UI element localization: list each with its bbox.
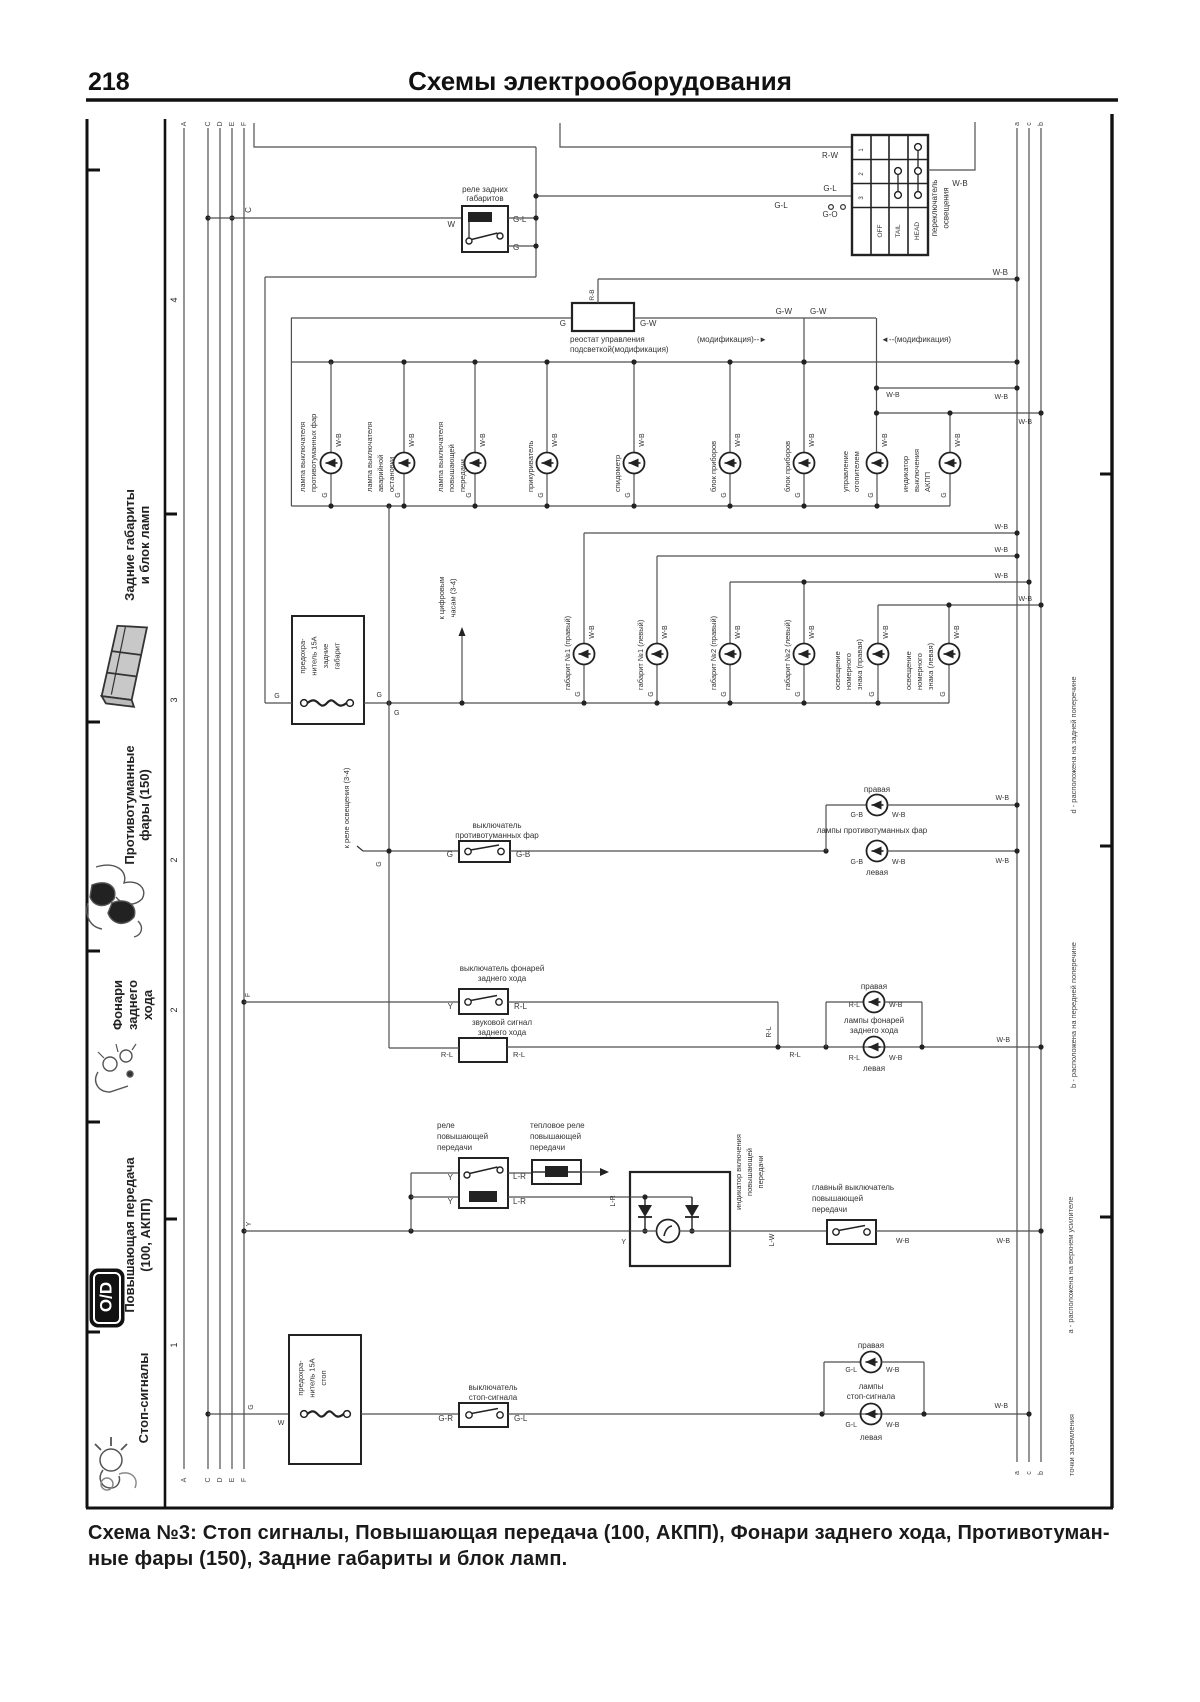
svg-text:E: E [229,1477,236,1482]
wire x=389 vertical [388,506,390,1048]
svg-text:Задние габариты: Задние габариты [122,489,137,601]
tick on left border y=1332 [87,1331,100,1334]
fog switch name [455,821,539,840]
node fog output branch [823,848,828,853]
wire G-L to light switch [536,195,852,197]
svg-text:выключения: выключения [912,449,921,492]
O/D indicator lamp [657,1220,680,1243]
buzzer left wire [389,1047,459,1049]
lamp column x=877 lower wire [876,474,878,507]
wire C to tail relay [208,217,462,219]
node y=582 x=804 [801,579,806,584]
indicator name: индикатор включения повышающей передачи [734,1134,765,1210]
node bus y=362 x=547 [544,359,549,364]
tail lamp at x=804 [794,644,815,665]
svg-text:c: c [1026,1471,1033,1475]
svg-text:W-B: W-B [896,1238,910,1245]
node bus y=506 x=547 [544,503,549,508]
svg-text:лампа выключателя: лампа выключателя [436,422,445,492]
lamp column x=634 lower wire [633,474,635,507]
svg-text:G: G [466,492,473,497]
node bus y=362 x=475 [472,359,477,364]
bus wire D vertical x=220 [219,128,221,1469]
svg-text:W-B: W-B [336,433,343,447]
tick on sidebar line y=1219 [165,1218,177,1221]
relay output stub G [508,245,536,247]
wire W-B from light switch [928,122,975,170]
svg-text:G-L: G-L [845,1367,857,1374]
svg-text:W-B: W-B [886,392,900,399]
O/D relay stub top [411,1172,459,1174]
svg-text:A: A [181,1477,188,1482]
node diode1 top [642,1194,647,1199]
svg-text:нитель 15А: нитель 15А [310,636,319,675]
svg-text:F: F [241,122,248,126]
relay K2 реле повышающей передачи [459,1158,508,1208]
svg-text:(модификация)--►: (модификация)--► [697,335,767,344]
node bus y=506 x=804 [801,503,806,508]
svg-text:W-B: W-B [995,394,1009,401]
svg-text:W-B: W-B [886,1367,900,1374]
node bus y=703 x=657 [654,700,659,705]
tail lamp at x=878 [868,644,889,665]
svg-text:переключатель: переключатель [930,180,939,237]
wire G-W rheostat output [634,317,876,319]
svg-text:G: G [447,850,453,859]
tick on right border y=474 [1100,473,1112,476]
node fog left lamp bus a [1014,848,1019,853]
svg-text:стоп: стоп [319,1370,328,1385]
svg-text:W-B: W-B [809,433,816,447]
O/D main switch [827,1220,876,1244]
svg-text:G: G [376,861,383,866]
svg-text:W-B: W-B [1019,419,1033,426]
fog feed wire from lighting relay [363,850,459,852]
svg-text:освещения: освещения [942,187,951,228]
bus wire A vertical x=184 [183,128,185,1469]
svg-text:W-B: W-B [996,858,1010,865]
O/D feed wire Y [244,1230,630,1232]
svg-text:◄--(модификация): ◄--(модификация) [881,335,951,344]
node stub y=413 col950 [947,410,952,415]
svg-text:противотуманных фар: противотуманных фар [455,831,539,840]
node bus y=506 x=404 [401,503,406,508]
svg-text:G: G [248,1404,255,1409]
node bus y=362 x=730 [727,359,732,364]
svg-text:G-L: G-L [823,184,837,193]
column name: блок приборов 2 [783,441,792,492]
svg-text:реле задних: реле задних [462,185,508,194]
tick on left border y=170 [87,169,100,172]
ground bus b vertical x=1041 [1040,128,1042,1462]
svg-text:G: G [625,492,632,497]
svg-text:G: G [513,243,519,252]
svg-text:к реле освещения (3-4): к реле освещения (3-4) [342,767,351,848]
column name: лампа выключателя повышающей передачи [436,422,467,492]
svg-text:R-L: R-L [441,1050,453,1059]
clock stub vertical [461,630,463,703]
node feed bus to ground bus a [1014,359,1019,364]
column name: индикатор выключения АКПП [901,449,932,492]
column name: освещение номерного знака (правая) [833,639,864,690]
svg-text:номерного: номерного [915,653,924,690]
node clock stub [459,700,464,705]
sidebar label: Стоп-сигналы [136,1353,151,1444]
wire segment x=536 vertical [535,147,537,277]
node bus y=703 x=584 [581,700,586,705]
lamp column x=547 upper wire [546,362,548,453]
svg-text:а - расположена на верхнем уси: а - расположена на верхнем усилителе [1066,1197,1075,1334]
svg-text:лампы фонарей: лампы фонарей [844,1016,904,1025]
svg-text:G: G [795,691,802,696]
node diode1 bottom [642,1228,647,1233]
svg-text:W-B: W-B [735,625,742,639]
bus wire C vertical x=208 [207,128,209,1469]
svg-text:W-B: W-B [892,859,906,866]
svg-text:выключатель: выключатель [472,821,521,830]
svg-text:W-B: W-B [1019,596,1033,603]
illumination lamp A/T indicator [940,453,961,474]
svg-text:Схемы электрооборудования: Схемы электрооборудования [408,66,792,96]
svg-text:G: G [538,492,545,497]
lamp column x=331 lower wire [330,474,332,507]
svg-text:W-B: W-B [886,1422,900,1429]
fog lamp right [867,795,888,816]
node y=533 bus a [1014,530,1019,535]
stub W-B y=413 [877,412,1042,414]
svg-text:L-W: L-W [769,1233,776,1246]
tail lamp column x=949 upper wire [948,605,950,644]
fuse box задние габариты [292,616,364,724]
note к цифровым часам (3-4) [437,577,458,620]
svg-text:R-L: R-L [849,1055,860,1062]
svg-text:лампы противотуманных фар: лампы противотуманных фар [817,826,928,835]
tail lamp column x=878 upper wire [877,605,879,644]
svg-text:b: b [1038,1471,1045,1475]
svg-text:реле: реле [437,1121,455,1130]
node bus y=506 x=730 [727,503,732,508]
tail lamp column x=584 upper wire [583,533,585,644]
stop right lamp wire left [824,1361,861,1363]
svg-text:O/D: O/D [96,1282,115,1312]
svg-text:освещение: освещение [833,651,842,690]
reverse right lamp riser [825,1002,827,1047]
svg-text:F: F [245,993,252,997]
svg-text:C: C [244,207,253,213]
reverse right lamp wire right [885,1001,923,1003]
svg-text:габарит №1 (левый): габарит №1 (левый) [636,619,645,690]
svg-text:Y: Y [448,1002,454,1011]
svg-text:R-B: R-B [589,289,596,300]
svg-text:главный выключатель: главный выключатель [812,1183,894,1192]
svg-text:TAIL: TAIL [895,224,902,238]
svg-text:G-L: G-L [514,1414,528,1423]
svg-text:G-L: G-L [774,201,788,210]
node bus y=362 x=804 [801,359,806,364]
svg-text:F: F [241,1478,248,1482]
column name: управление отопителем [841,451,861,492]
column name: габарит №1 (правый) [563,615,572,690]
lamp column x=475 upper wire [474,362,476,453]
svg-text:предохра-: предохра- [296,1360,305,1396]
wire A top feed [254,123,536,147]
wire indicator to main switch [730,1230,827,1232]
svg-text:W-B: W-B [954,625,961,639]
lamp column x=804 lower wire [803,474,805,507]
column name: блок приборов 1 [709,441,718,492]
reverse feed wire Y [244,1001,459,1003]
svg-text:знака (левая): знака (левая) [926,642,935,690]
fuse label предохранитель 15А задние габарит [298,636,342,675]
svg-text:W-B: W-B [889,1055,903,1062]
svg-text:выключатель: выключатель [468,1383,517,1392]
svg-text:W-B: W-B [735,433,742,447]
stop lamp switch [459,1403,508,1427]
node bus y=703 x=804 [801,700,806,705]
svg-text:G: G [795,492,802,497]
ground stub y=582 [730,581,1029,583]
O/D relay riser [410,1173,412,1231]
svg-text:Фонари: Фонари [110,980,125,1030]
svg-text:W-B: W-B [883,625,890,639]
O/D ground wire [876,1230,1041,1232]
relay output stub G-L [508,217,536,219]
svg-text:W-B: W-B [955,433,962,447]
svg-text:218: 218 [88,68,130,96]
thermal relay тепловое реле [532,1160,581,1184]
svg-text:3: 3 [169,697,179,702]
tick on left border y=1122 [87,1121,100,1124]
svg-text:прикуриватель: прикуриватель [526,441,535,492]
svg-text:задние: задние [321,644,330,669]
reverse output drop [777,1002,779,1047]
svg-text:Противотуманные: Противотуманные [122,745,137,864]
diode D1 [638,1197,652,1231]
ground bus c vertical x=1029 [1028,128,1030,1462]
sidebar label: Повышающая передача (100, АКПП) [122,1157,153,1313]
diode D2 [685,1197,699,1231]
illumination lamp heater control [867,453,888,474]
svg-text:спидометр: спидометр [613,455,622,492]
svg-text:индикатор: индикатор [901,456,910,492]
svg-text:заднего хода: заднего хода [478,974,527,983]
tail lamp at x=584 [574,644,595,665]
svg-text:W-B: W-B [409,433,416,447]
stop output wire [508,1413,1029,1415]
light switch name [930,180,951,237]
svg-text:a: a [1014,122,1021,126]
node bus F reverse feed [241,999,246,1004]
svg-text:противотуманных фар: противотуманных фар [309,414,318,492]
svg-text:повышающей: повышающей [530,1132,581,1141]
reversing lamp left [864,1037,885,1058]
svg-text:c: c [1026,122,1033,126]
svg-text:к цифровым: к цифровым [437,577,446,620]
svg-text:W-B: W-B [997,1037,1011,1044]
ground stub y=533 [584,532,1017,534]
lamp column x=950 lower wire [949,474,951,507]
svg-text:W-B: W-B [995,573,1009,580]
svg-text:G-L: G-L [513,215,527,224]
reverse output wire [508,1001,778,1003]
clock stub arrowhead [459,627,466,636]
sidebar label: Фонари заднего хода [110,980,155,1030]
tail lamp at x=949 [939,644,960,665]
svg-text:G: G [395,492,402,497]
lamp column x=547 lower wire [546,474,548,507]
node O/D to bus b [1038,1228,1043,1233]
svg-text:R-L: R-L [789,1052,800,1059]
svg-text:G-O: G-O [822,210,837,219]
svg-text:G-W: G-W [810,307,827,316]
svg-text:G: G [575,691,582,696]
node bus y=362 x=634 [631,359,636,364]
lamp column x=730 lower wire [729,474,731,507]
illumination lamp at x=804 [794,453,815,474]
stop right lamp return drop [923,1362,925,1414]
svg-text:G: G [940,691,947,696]
node: bus E crossing tail relay feed [229,215,234,220]
node bus y=703 x=878 [875,700,880,705]
lamp column x=404 lower wire [403,474,405,507]
light switch переключатель освещения [852,135,928,255]
svg-text:передачи: передачи [458,459,467,492]
svg-text:повышающей: повышающей [745,1148,754,1196]
stop switch name [468,1383,517,1402]
svg-text:габарит №1 (правый): габарит №1 (правый) [563,615,572,690]
svg-text:G-B: G-B [851,812,864,819]
node O/D relay riser mid [408,1194,413,1199]
ground stub y=605 [878,604,1041,606]
svg-text:G: G [721,492,728,497]
svg-text:передачи: передачи [530,1143,565,1152]
svg-text:G: G [721,691,728,696]
optional connector circles G-O [829,205,846,210]
ground note header точки заземления [1067,1414,1076,1476]
ground note d [1069,676,1078,813]
svg-text:индикатор включения: индикатор включения [734,1134,743,1210]
svg-text:C: C [205,121,212,126]
node y=582 bus c [1026,579,1031,584]
svg-text:(100, АКПП): (100, АКПП) [138,1198,153,1272]
reversing lamp right [864,992,885,1013]
node bus y=506 x=634 [631,503,636,508]
svg-text:W-B: W-B [662,625,669,639]
svg-text:Стоп-сигналы: Стоп-сигналы [136,1353,151,1444]
lamp column x=404 upper wire [403,362,405,453]
svg-text:передачи: передачи [756,1156,765,1189]
node y=605 bus b [1038,602,1043,607]
svg-text:W-B: W-B [995,547,1009,554]
wire segment y=277 horizontal [265,276,536,278]
svg-text:стоп-сигнала: стоп-сигнала [469,1393,518,1402]
svg-text:G: G [274,693,279,700]
svg-text:R-L: R-L [513,1050,525,1059]
left page border [86,119,89,1508]
svg-text:W: W [278,1420,285,1427]
node relay G-L junction [533,215,538,220]
node y=703 x=389 [386,700,391,705]
illumination return bus y=506 [291,505,950,507]
column name: лампа выключателя аварийной остановки [365,422,396,492]
tick on left border y=722 [87,721,100,724]
svg-text:АКПП: АКПП [923,472,932,492]
svg-text:OFF: OFF [877,224,884,237]
column name: спидометр [613,455,622,492]
svg-text:габарит №2 (левый): габарит №2 (левый) [783,619,792,690]
node stop return join [921,1411,926,1416]
svg-text:W-B: W-B [892,812,906,819]
lamp column x=950 upper wire [949,413,951,453]
thermal output arrowhead [600,1168,609,1176]
svg-text:заднего хода: заднего хода [850,1026,899,1035]
svg-text:E: E [229,121,236,126]
indicator internal wire y=1197 [630,1196,692,1198]
tail lamp column x=949 lower wire [948,665,950,704]
rheostat name [570,335,669,354]
caption text [88,1520,1118,1572]
svg-text:W-B: W-B [996,795,1010,802]
svg-text:знака (правая): знака (правая) [855,639,864,690]
sidebar label: Противотуманные фары (150) [122,745,152,864]
wire rheostat feed vertical x=291 [290,318,292,506]
svg-text:правая: правая [858,1341,884,1350]
bus wire E vertical x=232 [231,128,233,1469]
svg-text:и блок ламп: и блок ламп [137,506,152,584]
reverse buzzer звуковой сигнал заднего хода [459,1038,507,1062]
illumination lamp at x=634 [624,453,645,474]
svg-text:b: b [1038,122,1045,126]
fuse feed wire [265,702,292,704]
svg-text:A: A [181,121,188,126]
svg-text:W-B: W-B [997,1238,1011,1245]
stop wire fuse to switch [361,1413,459,1415]
svg-text:R-L: R-L [849,1002,860,1009]
svg-text:2: 2 [169,857,179,862]
svg-text:подсветкой(модификация): подсветкой(модификация) [570,345,669,354]
svg-text:W: W [447,220,455,229]
node bus y=506 x=331 [328,503,333,508]
svg-text:правая: правая [861,982,887,991]
reverse main wire y=1047 [507,1046,1041,1048]
svg-text:G-B: G-B [851,859,864,866]
svg-text:G: G [869,691,876,696]
O/D relay name [437,1121,488,1152]
node stub y=387 col877 [874,385,879,390]
node reverse drop join [775,1044,780,1049]
tick on right border y=1217 [1100,1216,1112,1219]
svg-text:предохра-: предохра- [298,638,307,674]
reverse right lamp return drop [921,1002,923,1047]
svg-text:W-B: W-B [882,433,889,447]
illumination lamp at x=475 [465,453,486,474]
wire G-W drop to lamp bus [803,318,805,362]
wire L-R to indicator [508,1196,630,1198]
node stub y=413 col877 [874,410,879,415]
lamp column x=730 upper wire [729,362,731,453]
svg-text:a: a [1014,1471,1021,1475]
svg-text:G: G [560,319,566,328]
svg-text:хода: хода [140,989,155,1020]
tail lamp column x=730 upper wire [729,582,731,644]
svg-text:W-B: W-B [952,179,967,188]
svg-text:передачи: передачи [437,1143,472,1152]
svg-text:лампа выключателя: лампа выключателя [298,422,307,492]
svg-text:номерного: номерного [844,653,853,690]
note к реле освещения (3-4) [342,767,351,848]
node fog feed x=389 [386,848,391,853]
column name: габарит №2 (правый) [709,615,718,690]
